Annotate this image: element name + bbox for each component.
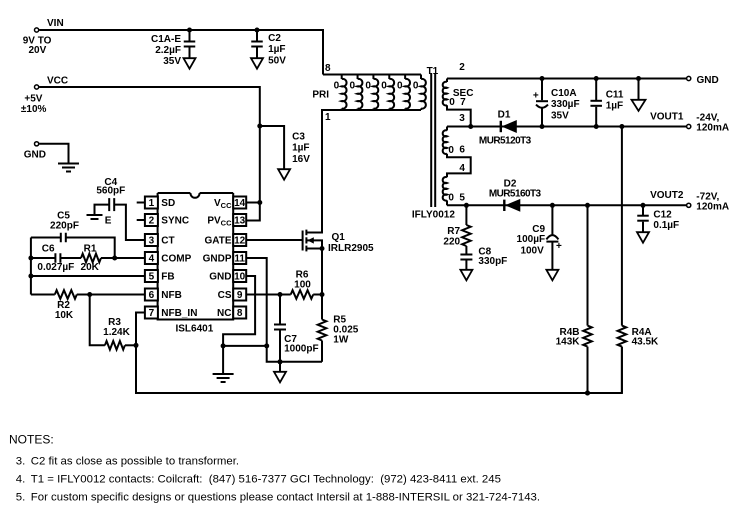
svg-text:ISL6401: ISL6401	[175, 324, 213, 335]
svg-text:35V: 35V	[163, 56, 181, 67]
svg-text:120mA: 120mA	[696, 202, 729, 213]
svg-text:0.027µF: 0.027µF	[37, 262, 74, 273]
svg-text:SYNC: SYNC	[161, 216, 189, 227]
svg-text:100: 100	[294, 280, 311, 291]
svg-text:+5V: +5V	[24, 94, 42, 105]
svg-text:9: 9	[237, 290, 243, 301]
svg-text:IFLY0012: IFLY0012	[412, 209, 455, 220]
svg-text:SD: SD	[161, 198, 175, 209]
svg-text:10: 10	[234, 272, 246, 283]
svg-text:GND: GND	[209, 272, 231, 283]
svg-text:20V: 20V	[29, 45, 47, 56]
svg-text:35V: 35V	[551, 110, 569, 121]
svg-text:6: 6	[149, 290, 155, 301]
svg-text:VCC: VCC	[47, 76, 68, 87]
svg-text:C3: C3	[292, 132, 305, 143]
svg-text:COMP: COMP	[161, 254, 191, 265]
svg-text:10K: 10K	[55, 310, 74, 321]
svg-text:2: 2	[149, 216, 155, 227]
svg-text:220: 220	[443, 236, 460, 247]
svg-text:11: 11	[234, 254, 245, 265]
svg-text:0: 0	[448, 193, 454, 204]
svg-text:0: 0	[381, 81, 387, 92]
svg-text:3: 3	[149, 236, 155, 247]
svg-text:0: 0	[449, 97, 455, 108]
svg-text:4.: 4.	[16, 474, 25, 486]
svg-text:C11: C11	[606, 90, 624, 101]
svg-text:220pF: 220pF	[50, 221, 79, 232]
svg-text:C1A-E: C1A-E	[151, 34, 181, 45]
svg-text:5: 5	[149, 272, 155, 283]
svg-text:±10%: ±10%	[21, 104, 47, 115]
svg-text:IRLR2905: IRLR2905	[328, 243, 374, 254]
svg-text:C10A: C10A	[551, 88, 577, 99]
svg-text:1µF: 1µF	[292, 143, 309, 154]
svg-text:100V: 100V	[520, 246, 544, 257]
svg-text:12: 12	[234, 236, 246, 247]
svg-text:0: 0	[397, 81, 403, 92]
svg-text:VIN: VIN	[47, 18, 64, 29]
svg-text:1W: 1W	[333, 335, 349, 346]
svg-text:13: 13	[234, 216, 246, 227]
svg-text:43.5K: 43.5K	[632, 337, 659, 348]
svg-text:5: 5	[459, 192, 465, 203]
svg-text:4: 4	[149, 254, 155, 265]
svg-text:Q1: Q1	[332, 232, 346, 243]
svg-text:14: 14	[234, 198, 246, 209]
svg-text:E: E	[105, 215, 112, 226]
svg-text:MUR5120T3: MUR5120T3	[479, 136, 532, 147]
svg-text:143K: 143K	[556, 337, 581, 348]
svg-text:7: 7	[149, 308, 155, 319]
svg-text:C2 fit as close as possible to: C2 fit as close as possible to transform…	[31, 455, 239, 467]
svg-text:GND: GND	[697, 75, 719, 86]
svg-text:0.1µF: 0.1µF	[653, 220, 679, 231]
svg-text:1µF: 1µF	[606, 101, 623, 112]
svg-text:C5: C5	[57, 210, 70, 221]
svg-text:50V: 50V	[268, 56, 286, 67]
svg-text:R6: R6	[296, 269, 309, 280]
svg-text:1: 1	[325, 112, 331, 123]
svg-text:100µF: 100µF	[517, 234, 546, 245]
svg-text:330µF: 330µF	[551, 99, 580, 110]
svg-text:1000pF: 1000pF	[284, 343, 318, 354]
svg-text:NFB_IN: NFB_IN	[161, 308, 197, 319]
svg-text:5.: 5.	[16, 492, 25, 504]
svg-text:CT: CT	[161, 236, 174, 247]
svg-text:D1: D1	[498, 109, 511, 120]
svg-text:For custom specific designs or: For custom specific designs or questions…	[31, 492, 540, 504]
svg-text:2: 2	[459, 62, 465, 73]
svg-text:1.24K: 1.24K	[103, 327, 130, 338]
svg-text:8: 8	[237, 308, 243, 319]
svg-text:20K: 20K	[81, 262, 100, 273]
svg-text:NFB: NFB	[161, 290, 182, 301]
svg-text:VOUT1: VOUT1	[650, 111, 684, 122]
svg-text:VOUT2: VOUT2	[650, 190, 684, 201]
svg-text:0: 0	[413, 81, 419, 92]
svg-text:4: 4	[459, 163, 465, 174]
svg-text:3: 3	[459, 113, 465, 124]
svg-text:0: 0	[365, 81, 371, 92]
svg-text:FB: FB	[161, 272, 174, 283]
svg-text:560pF: 560pF	[96, 186, 125, 197]
svg-text:0: 0	[448, 145, 454, 156]
svg-text:330pF: 330pF	[478, 256, 507, 267]
svg-text:GATE: GATE	[204, 236, 231, 247]
svg-text:C6: C6	[42, 243, 55, 254]
svg-text:PRI: PRI	[312, 90, 329, 101]
svg-text:T1: T1	[427, 66, 439, 77]
svg-text:0: 0	[349, 81, 355, 92]
svg-text:8: 8	[325, 63, 331, 74]
svg-text:2.2µF: 2.2µF	[155, 45, 181, 56]
svg-text:7: 7	[460, 97, 466, 108]
svg-text:GND: GND	[24, 150, 46, 161]
svg-text:16V: 16V	[292, 154, 310, 165]
svg-text:GNDP: GNDP	[203, 254, 232, 265]
svg-text:NC: NC	[217, 308, 231, 319]
svg-text:MUR5160T3: MUR5160T3	[489, 188, 542, 199]
svg-text:T1 = IFLY0012 contacts: Coilcr: T1 = IFLY0012 contacts: Coilcraft: (847)…	[31, 474, 501, 486]
svg-text:6: 6	[459, 145, 465, 156]
svg-text:R1: R1	[84, 243, 97, 254]
svg-text:3.: 3.	[16, 455, 25, 467]
svg-text:R7: R7	[447, 226, 460, 237]
svg-text:1: 1	[149, 198, 155, 209]
svg-text:C2: C2	[268, 33, 281, 44]
svg-text:NOTES:: NOTES:	[9, 433, 54, 447]
svg-text:0: 0	[334, 81, 340, 92]
svg-text:120mA: 120mA	[696, 123, 729, 134]
svg-text:+: +	[533, 91, 539, 102]
svg-text:CS: CS	[218, 290, 232, 301]
svg-text:+: +	[556, 241, 562, 252]
svg-text:1µF: 1µF	[268, 44, 285, 55]
